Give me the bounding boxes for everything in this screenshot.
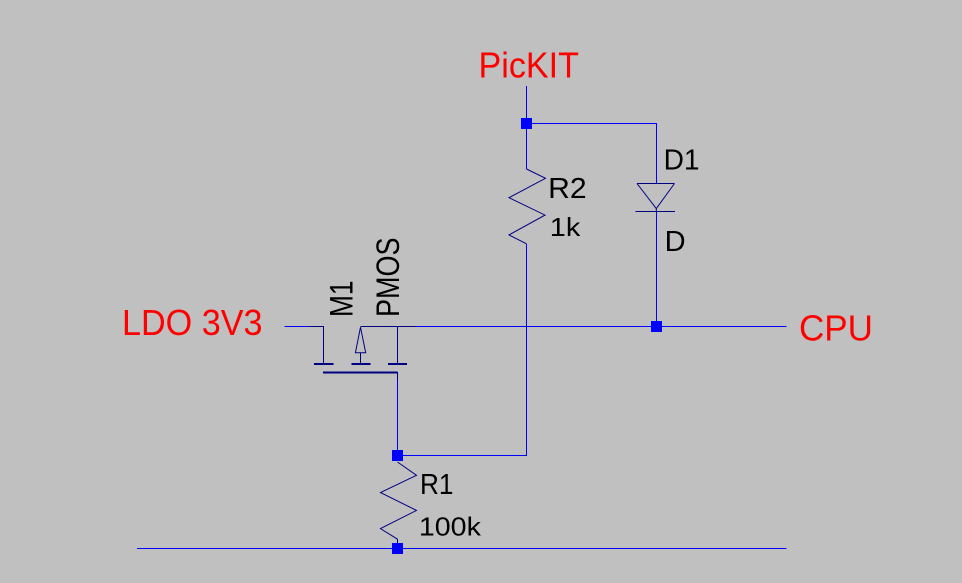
svg-text:CPU: CPU	[799, 308, 873, 349]
svg-text:R1: R1	[420, 469, 454, 501]
wire transistor source down to node3	[397, 380, 399, 456]
svg-text:M1: M1	[324, 281, 360, 318]
wire LDO to gate	[285, 326, 309, 328]
drain plate	[388, 363, 407, 365]
resistor R2	[509, 169, 546, 244]
gate lead	[309, 327, 324, 364]
drain finger	[397, 327, 399, 364]
node junction below transistor	[392, 450, 403, 461]
svg-text:D: D	[665, 226, 686, 258]
wire node1 to diode top corner	[527, 124, 657, 184]
svg-text:1k: 1k	[550, 212, 582, 242]
top bar drain lead	[361, 326, 417, 328]
wire diode cathode down to CPU rail node	[656, 212, 658, 327]
diode D1	[636, 184, 676, 212]
body arrow	[355, 327, 365, 353]
node junction diode/CPU rail	[651, 321, 662, 332]
source stub down	[397, 372, 399, 381]
gate plate	[314, 363, 334, 365]
svg-text:100k: 100k	[419, 511, 482, 541]
transistor Q1 M1 PMOS	[309, 327, 417, 381]
wire node3 horizontal to R2 branch	[398, 455, 528, 457]
arrow stem	[360, 353, 362, 363]
wire PicKIT stub down through node to R2 top	[526, 86, 528, 169]
svg-text:R2: R2	[548, 173, 587, 205]
svg-text:PicKIT: PicKIT	[479, 44, 580, 85]
node junction bottom rail	[392, 543, 403, 554]
resistor R1	[381, 462, 417, 543]
body plate	[352, 363, 371, 365]
channel line	[323, 372, 398, 374]
wire main CPU rail	[416, 326, 786, 328]
svg-text:LDO 3V3: LDO 3V3	[122, 302, 263, 343]
svg-text:PMOS: PMOS	[370, 238, 406, 318]
node junction at PicKIT	[521, 118, 532, 129]
svg-text:D1: D1	[664, 145, 700, 177]
wire bottom rail	[137, 548, 787, 550]
wire R2 bottom down to lower junction	[526, 244, 528, 456]
